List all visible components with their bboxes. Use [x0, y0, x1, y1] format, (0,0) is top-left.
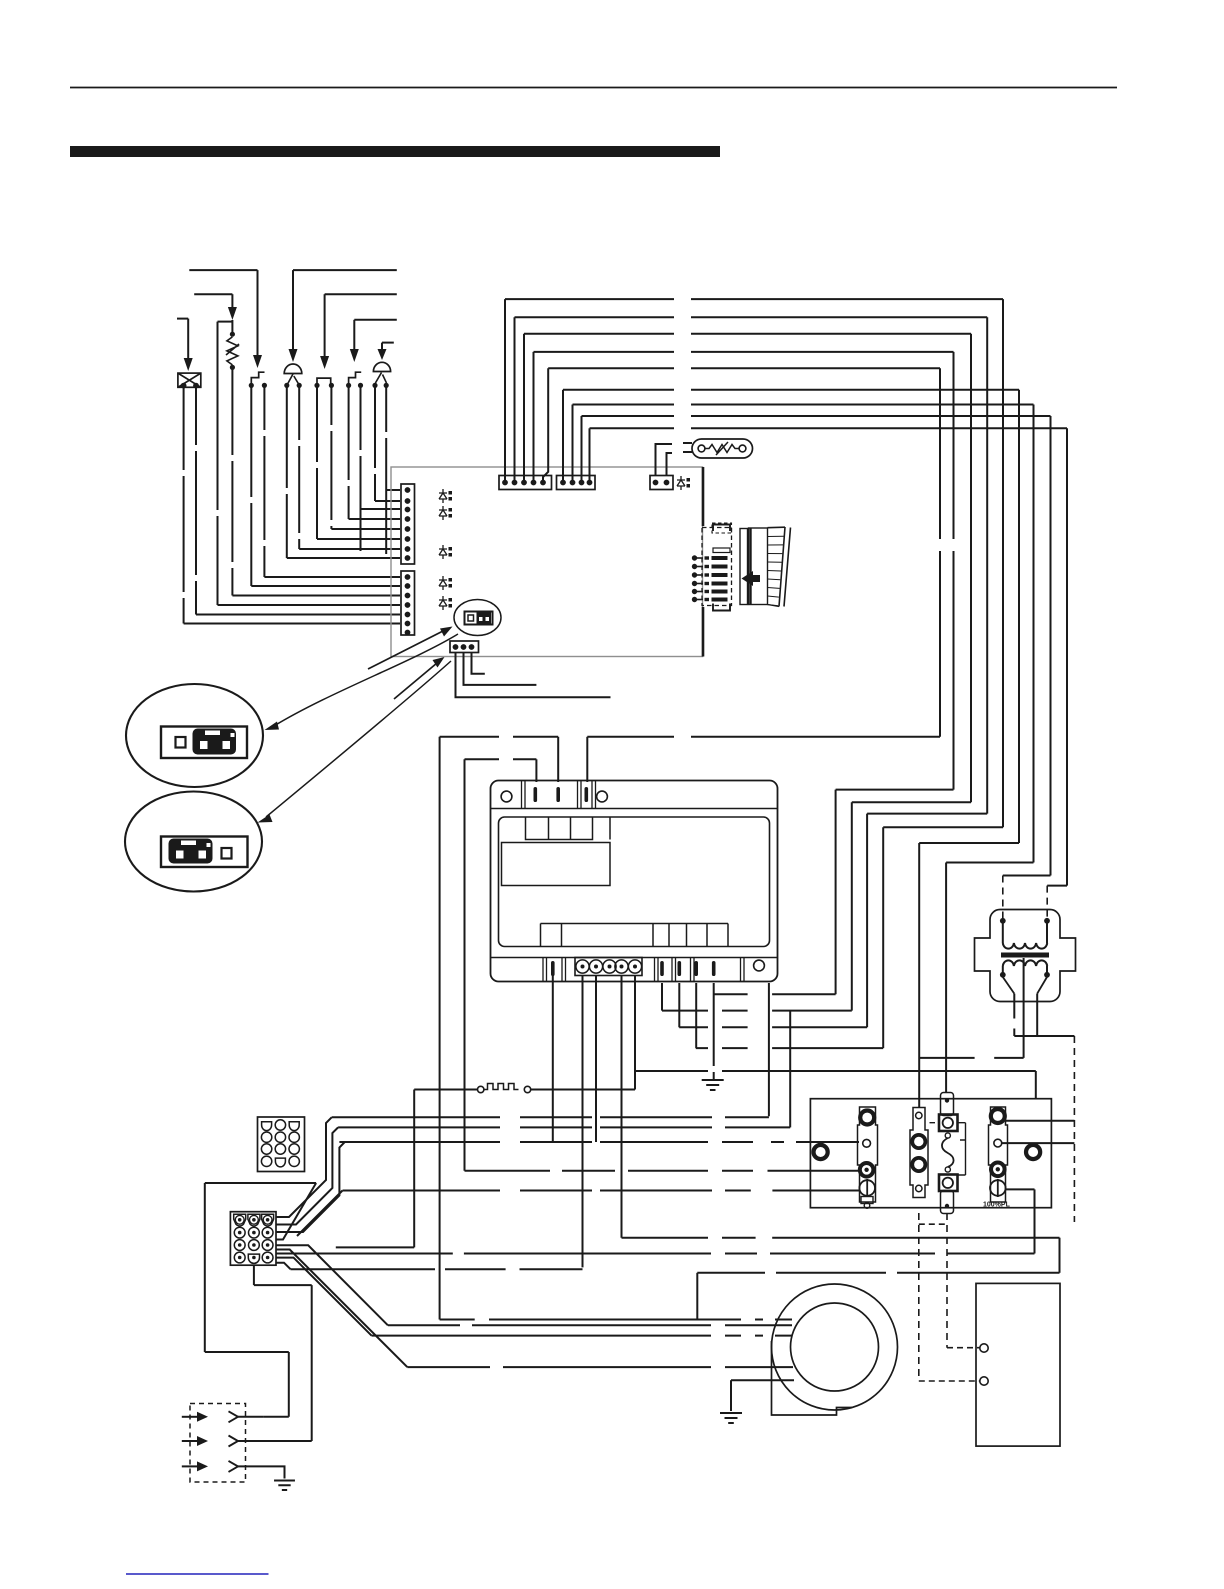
- ribbon cable insertion arrow: [742, 571, 761, 586]
- wire bus1 to board B: [696, 1047, 883, 1049]
- jumper detail 2 housing: [161, 837, 248, 868]
- arrow into igniter: [228, 307, 237, 320]
- fuse F1 body: [692, 439, 753, 458]
- wire TB1 down: [552, 976, 554, 1143]
- blower housing scroll: [772, 1341, 853, 1415]
- terminal strip left outline: [858, 1107, 878, 1202]
- wire sensor lead 6 into J1: [317, 538, 400, 540]
- J3 pin 3: [521, 480, 527, 486]
- T1 primary terminal 1: [1000, 918, 1006, 924]
- arrow into aux switch: [320, 356, 329, 369]
- sail switch right contact: [524, 1086, 530, 1092]
- fuse holder outline: [910, 1108, 928, 1198]
- wire sensor lead 8 down: [286, 385, 288, 558]
- jumper W1 detail: [468, 615, 474, 621]
- wire L1 drop to board B: [557, 737, 559, 782]
- wire bus7 top run: [573, 404, 1034, 406]
- board B top slot at 586.3: [585, 787, 589, 802]
- P2 shield r1c2: [248, 1214, 260, 1226]
- J3 pin 4: [531, 480, 537, 486]
- wire feed PS1 top: [293, 269, 397, 271]
- wire slot7 down: [678, 983, 680, 1027]
- wire run to strip L lug3: [465, 1170, 860, 1172]
- wire grid diag to screw run: [297, 1191, 343, 1237]
- wire P2 r2b up-fan: [276, 1183, 316, 1240]
- wire P2 r4a diagonal: [276, 1258, 372, 1336]
- wire strip R screw drop: [1034, 1189, 1036, 1253]
- wire dashed to motor box 2: [919, 1380, 980, 1382]
- wire T1 sec2 diagonal: [1037, 977, 1047, 994]
- wire J6 pin1 stub: [456, 653, 611, 698]
- J2 pin 7: [405, 630, 411, 636]
- aux switch terminal 2: [329, 383, 334, 388]
- wire T1 center tap run: [920, 1057, 1024, 1059]
- T1 secondary lead 2: [1046, 966, 1048, 973]
- wire strip R lug1 right: [1006, 1120, 1075, 1122]
- wire bus3 to board B: [662, 1010, 852, 1012]
- wire bus2 to board B: [679, 1026, 867, 1028]
- LED D3: [439, 545, 447, 559]
- J2 pin 6: [405, 621, 411, 627]
- header rule: [70, 87, 1117, 89]
- ground motor: [720, 1413, 742, 1423]
- board B mounting hole BR: [754, 960, 765, 971]
- connector J6 shell: [450, 641, 479, 653]
- wire bus7 left riser: [572, 405, 574, 483]
- fuse holder lug 2: [912, 1158, 925, 1171]
- T1 primary terminal 2: [1044, 918, 1050, 924]
- wire TB2 down long: [582, 976, 584, 1268]
- J1 pin 2: [405, 498, 411, 504]
- strip R screw: [990, 1180, 1006, 1196]
- P7 pin 5: [692, 589, 697, 594]
- J1 pin 7: [405, 546, 411, 552]
- wire sensor lead 7 into J1: [299, 548, 400, 550]
- wire slot9 down to ground: [713, 983, 715, 1079]
- T1 secondary terminal 2: [1044, 972, 1050, 978]
- P7 pin 2: [692, 564, 697, 569]
- wire bus4 return run: [836, 789, 954, 791]
- J2 pin 2: [405, 583, 411, 589]
- fuse F2 element S-curve: [942, 1138, 954, 1167]
- wire sensor lead 4 into J1: [349, 518, 400, 520]
- pressure switch PS1 diaphragm: [284, 364, 302, 373]
- arrow into pressure switch 1: [289, 349, 298, 362]
- TB screw 2: [589, 960, 602, 973]
- board B top slot at 558.2: [556, 787, 560, 802]
- wire J6 pin2 stub: [464, 653, 537, 685]
- P1 socket D r1c1: [262, 1122, 272, 1131]
- board B bottom band dividers: [543, 958, 744, 982]
- wire bus5 drop to board B: [586, 737, 588, 782]
- wire L1 feed run: [440, 736, 559, 738]
- wire sensor lead 12 into J1: [218, 604, 401, 606]
- wire strip R lug2 right: [1002, 1142, 1074, 1144]
- board B top band rule: [491, 808, 778, 810]
- wire bus5 right drop: [939, 368, 941, 737]
- board B bottom slot at 552.8: [551, 961, 555, 976]
- strip L screw: [859, 1180, 875, 1196]
- wire sail right: [531, 1089, 635, 1091]
- wire bus2 drop 2: [866, 814, 868, 1028]
- wire riser right of board B: [768, 983, 770, 1116]
- wire far left jog: [205, 1351, 289, 1353]
- wire sensor lead 9 into J1: [264, 576, 400, 578]
- wire motor ground drop: [730, 1380, 732, 1411]
- fuse block assembly outline: [810, 1099, 1051, 1208]
- wire sensor lead 1 down: [385, 385, 387, 554]
- wire feed limit1 drop: [257, 270, 259, 355]
- wire igniter tap: [218, 321, 233, 323]
- jumper detail 2 shunt: [169, 839, 213, 864]
- LED D4: [439, 576, 447, 590]
- ribbon plug body: [740, 529, 748, 605]
- wire feed rollout top: [354, 319, 397, 321]
- wire feed limit1 top: [189, 269, 257, 271]
- ribbon cable teeth: [768, 528, 785, 606]
- P1 socket D r1c3: [289, 1122, 299, 1131]
- wire bus9 right drop: [1066, 428, 1068, 885]
- PS1 terminal 1: [284, 383, 289, 388]
- wire fuse stubs: [683, 443, 692, 452]
- fuse holder lug 1: [912, 1135, 925, 1148]
- wire bus9 return run: [1047, 885, 1067, 887]
- wire bus1 top run: [505, 298, 1003, 300]
- wire P2 r4b jog: [276, 1263, 291, 1270]
- wire bus1 left riser: [504, 299, 506, 482]
- wire sensor lead 10 down: [250, 385, 252, 586]
- wire sensor lead 11 down: [231, 367, 233, 595]
- fuse F2 top cap: [941, 1093, 954, 1116]
- wire bus6 top run: [563, 389, 1019, 391]
- capacitor terminal 2: [980, 1377, 988, 1385]
- T1 primary lead 2: [1046, 923, 1048, 943]
- wire run r1a right: [332, 1116, 769, 1118]
- wire bus4 drop 2: [835, 790, 837, 995]
- J2 pin 4: [405, 602, 411, 608]
- wire bus7 drop to fuse: [945, 863, 947, 1093]
- plug M row3 pin arrow: [197, 1461, 208, 1471]
- callout arrow curve 1: [274, 634, 458, 726]
- J1 pin 6: [405, 536, 411, 542]
- P7 bottom bracket: [713, 604, 730, 611]
- jumper select oval: [454, 600, 501, 636]
- TB screw 5: [628, 960, 641, 973]
- wire sensor lead 3 into J1: [361, 508, 401, 510]
- wire L1 left long drop: [439, 737, 441, 1320]
- wire bus5 left riser jog: [543, 368, 548, 482]
- terminal strip right outline: [989, 1107, 1008, 1202]
- fuse F2 bracket lines: [930, 1123, 966, 1175]
- fuse holder hole bottom: [916, 1185, 922, 1191]
- wire J6 pin3 stub: [472, 653, 485, 674]
- P1 socket r3c3: [289, 1144, 299, 1154]
- wire feed PS1 drop: [292, 270, 294, 349]
- wire bus2 top run: [515, 316, 988, 318]
- wire P2 r3c diagonal: [276, 1250, 407, 1368]
- board B inner outline: [499, 817, 770, 947]
- wire sail drop: [413, 1090, 415, 1248]
- wire P2 r3b long run: [276, 1253, 1035, 1255]
- LED D2: [439, 506, 447, 520]
- P2 socket r3c3: [262, 1240, 273, 1251]
- plug M row2 lead in: [182, 1440, 197, 1442]
- wire T1 dashed drop right: [1073, 1036, 1075, 1222]
- wire bus3 return run: [852, 801, 971, 803]
- wire TB4 down: [621, 976, 623, 1238]
- wire assembly feed drop: [1035, 1071, 1037, 1099]
- F2 element top circle: [945, 1133, 950, 1138]
- J5 pin 2: [664, 480, 670, 486]
- wire sensor lead 12 down: [217, 322, 219, 605]
- wire feed igniter drop: [231, 294, 233, 307]
- wire T1 sec1 diagonal: [1003, 977, 1015, 994]
- P1 socket r2c2: [275, 1132, 285, 1142]
- board A right edge heavy: [702, 467, 705, 657]
- strip L lug 3: [860, 1163, 874, 1177]
- wire sensor lead 11 into J1: [232, 595, 400, 597]
- aux switch terminal 1: [314, 383, 319, 388]
- wire drop to plug M row2: [311, 1285, 313, 1441]
- P1 socket r2c1: [261, 1132, 271, 1142]
- P7 pin 1: [692, 555, 697, 560]
- board B bottom slot at 696.2: [694, 961, 698, 976]
- assembly mounting lug left: [814, 1145, 828, 1159]
- P7 pin 3: [692, 572, 697, 577]
- GV terminal 2: [193, 383, 199, 389]
- J3 pin 5: [540, 480, 546, 486]
- wire sensor lead 13 down: [195, 387, 197, 614]
- wire sensor lead 7 down: [298, 385, 300, 549]
- P2 socket r4c1: [234, 1252, 245, 1263]
- PS1 switch blade: [287, 374, 299, 385]
- wire bus5 feed run: [587, 736, 940, 738]
- connector J3 shell: [499, 476, 552, 490]
- J6 pin 1: [453, 644, 459, 650]
- J2 pin 1: [405, 574, 411, 580]
- wire riser at 790: [789, 1011, 791, 1128]
- ribbon cable slant lines: [779, 527, 791, 607]
- wire motor lead 2: [388, 1324, 792, 1326]
- wire bus4 right drop: [953, 352, 955, 790]
- redacted title bar: [70, 146, 720, 157]
- fuse F2 bottom cap: [941, 1191, 954, 1214]
- wire F2 dashed drop 1: [918, 1213, 920, 1381]
- wire sail bottom run: [336, 1246, 414, 1248]
- board B top slot at 535.3: [534, 787, 538, 802]
- connector J2 lower shell: [401, 571, 415, 635]
- P1 socket r4c3: [289, 1156, 299, 1166]
- strip R lug 2: [994, 1139, 1002, 1147]
- igniter node top: [230, 332, 235, 337]
- wire sensor lead 14 into J1: [184, 623, 400, 625]
- wire slot6 down: [661, 983, 663, 1011]
- wire bus9 dashed lead: [1046, 886, 1048, 918]
- wire igniter top lead: [231, 320, 233, 334]
- jumper detail 1 pin: [176, 737, 186, 748]
- wire bus8 left riser: [581, 416, 583, 483]
- wire motor ground lead: [731, 1379, 794, 1381]
- P2 shield r1c3: [262, 1214, 274, 1226]
- wire far left drop: [204, 1183, 206, 1352]
- wire bus4 top run: [534, 351, 954, 353]
- T1 core: [1001, 953, 1049, 958]
- wire L2 feed run: [465, 758, 537, 760]
- aux switch bracket: [317, 378, 331, 385]
- P1 socket r4c1: [261, 1156, 271, 1166]
- jumper detail 1 shunt: [193, 729, 237, 755]
- arrow into gas valve: [184, 358, 193, 371]
- wire T1 sec2 drop: [1036, 994, 1038, 1036]
- J3 pin 1: [502, 480, 508, 486]
- wire feed PS2 drop: [381, 343, 383, 349]
- svg-text:100%PL: 100%PL: [983, 1202, 1011, 1209]
- blower motor outer: [772, 1284, 898, 1410]
- J1 pin 3: [405, 507, 411, 513]
- wire L2 left long drop: [464, 759, 466, 1171]
- wire assembly feed top: [635, 1070, 1036, 1072]
- wire bus3 drop 2: [851, 802, 853, 1010]
- T1 primary lead 1: [1002, 923, 1004, 943]
- wire bus1 drop 2: [882, 827, 884, 1048]
- TB screw 4: [615, 960, 628, 973]
- F2 element bottom circle: [945, 1167, 950, 1172]
- wire P2 r3a diagonal: [276, 1245, 388, 1325]
- assembly mounting lug right: [1026, 1145, 1040, 1159]
- jumper block W1: [465, 612, 493, 625]
- terminal block TB on board B: [575, 958, 642, 976]
- wire run r4b to TB2: [291, 1268, 583, 1270]
- J6 pin 3: [469, 644, 475, 650]
- wire bus6 drop to fuseholder: [918, 843, 920, 1108]
- wire sensor lead 5 into J1: [331, 528, 400, 530]
- wire P2 r1a up-fan: [276, 1117, 332, 1217]
- wire plug M row2 to riser: [279, 1440, 312, 1442]
- plug M dashed shell: [190, 1404, 246, 1483]
- wire motor route top: [622, 1237, 1060, 1239]
- fuse holder hole top: [916, 1112, 922, 1118]
- board B bottom band rule: [491, 957, 778, 959]
- board B lower partition row: [541, 924, 729, 947]
- arrow into limit switch 1: [253, 355, 262, 368]
- connector J1 upper shell: [401, 484, 415, 564]
- gas valve GV: [178, 373, 201, 387]
- board B bottom slot at 713.7: [712, 961, 716, 976]
- ignition module board B outline: [491, 781, 778, 982]
- wire bus5 top run: [548, 367, 940, 369]
- J1 pin 8: [405, 555, 411, 561]
- P2 socket r2c2: [249, 1227, 260, 1238]
- resistor igniter element: [226, 337, 239, 365]
- wire feed rollout drop: [353, 320, 355, 350]
- plug M row2 lead out: [238, 1440, 279, 1442]
- wire bus7 right drop: [1033, 405, 1035, 863]
- wire motor route drop 2: [696, 1273, 698, 1320]
- P1 socket r3c1: [261, 1144, 271, 1154]
- wire dashed to motor box 1: [947, 1347, 980, 1349]
- wire bus6 right drop: [1018, 390, 1020, 843]
- wire P2 r2a up-fan: [276, 1142, 345, 1232]
- wire plug M row3 to ground: [267, 1466, 285, 1478]
- wire T1 secondary bottom run: [1014, 1035, 1074, 1037]
- transformer T1 housing: [975, 910, 1076, 1002]
- wire J5 to fuse: [656, 444, 673, 476]
- igniter node bottom: [230, 365, 235, 370]
- J3 pin 2: [512, 480, 518, 486]
- wire motor lead 4: [407, 1366, 793, 1368]
- wire bus9 top run: [590, 427, 1068, 429]
- J1 pin 5: [405, 526, 411, 532]
- wire bus7 return run: [946, 862, 1033, 864]
- board B bottom slot at 679.3: [678, 961, 682, 976]
- plug M row1 lead out: [238, 1416, 264, 1418]
- rollout terminal 2: [358, 383, 363, 388]
- P7 pin 6: [692, 597, 697, 602]
- wire motor lead 1: [440, 1319, 792, 1321]
- strip R lug 3: [991, 1163, 1005, 1177]
- P2 socket r4c3: [262, 1252, 273, 1263]
- wire feed igniter elbow: [194, 293, 232, 295]
- LS1 terminal 1: [249, 383, 254, 388]
- wire feed LS2 drop: [324, 294, 326, 356]
- limit switch LS1 blade: [251, 372, 264, 383]
- wire L2 drop to board B: [535, 759, 537, 782]
- fuse F2 bottom terminal: [939, 1175, 958, 1192]
- callout arrow curve 2: [266, 661, 451, 817]
- LED D6: [677, 476, 685, 490]
- T1 primary winding: [1003, 943, 1047, 949]
- J4 pin 3: [579, 480, 585, 486]
- wire sensor lead 5 down: [330, 385, 332, 529]
- wire bus2 return run: [867, 813, 987, 815]
- P7 dashed key top: [712, 523, 732, 533]
- wire T1 sec1 drop: [1013, 994, 1015, 1036]
- F2 top cap dot: [945, 1098, 949, 1102]
- P7 pin 4: [692, 581, 697, 586]
- wire bus3 left riser: [523, 334, 525, 483]
- wire bus6 left riser: [562, 390, 564, 483]
- plug M row2 pin arrow: [197, 1436, 208, 1446]
- plug M row1 lead in: [182, 1416, 197, 1418]
- plug grid P2 shell: [230, 1212, 276, 1266]
- wire run r2b left: [205, 1182, 316, 1184]
- PS2 terminal 1: [372, 383, 377, 388]
- LED D1: [439, 489, 447, 503]
- J1 pin 4: [405, 516, 411, 522]
- wire sensor lead 2 down: [374, 385, 376, 501]
- pointer arrow to J6: [394, 663, 437, 699]
- control board A outline: [391, 467, 703, 657]
- run capacitor box: [976, 1283, 1060, 1446]
- wire run to strip L lug2: [339, 1141, 859, 1143]
- wire sensor lead 10 into J1: [251, 585, 400, 587]
- capacitor terminal 1: [980, 1344, 988, 1352]
- wire P2 r1b up-fan: [276, 1127, 338, 1224]
- plug grid P1 shell: [258, 1117, 305, 1172]
- board B relay block main: [502, 817, 611, 886]
- fuse F2 bracket lines 2: [958, 1123, 966, 1175]
- GV terminal 1: [181, 383, 187, 389]
- plug M row3 socket chevron: [229, 1461, 239, 1472]
- wire bus4 left riser: [533, 352, 535, 483]
- connector P7 dashed shell: [702, 528, 732, 606]
- ground chassis 1: [702, 1080, 724, 1090]
- plug M row2 socket chevron: [229, 1436, 239, 1447]
- P1 socket r1c2: [275, 1120, 285, 1130]
- wire bus9 left riser: [589, 428, 591, 482]
- wire bus8 return run: [1003, 875, 1051, 877]
- wire sensor lead 14 down: [183, 387, 185, 623]
